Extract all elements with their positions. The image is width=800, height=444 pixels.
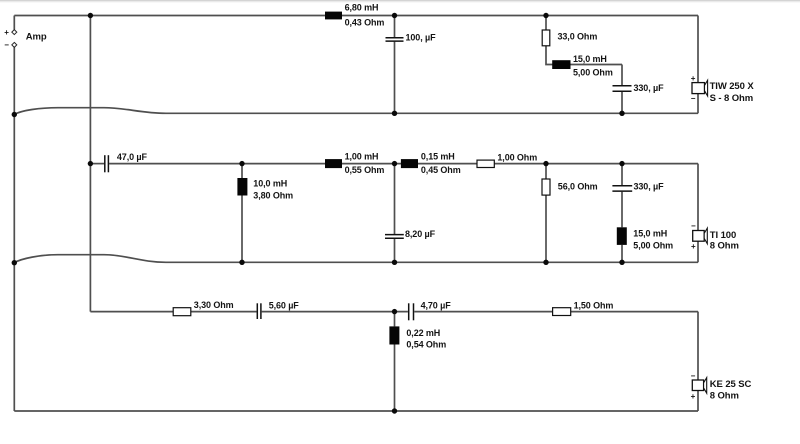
wire bottom rail (tweeter return) bbox=[14, 410, 698, 412]
svg-text:KE 25 SC: KE 25 SC bbox=[710, 379, 752, 390]
wire top return (curved) bbox=[14, 108, 698, 115]
resistor R3 56,0 Ohm bbox=[542, 179, 598, 195]
wire woofer top lead bbox=[697, 16, 699, 83]
svg-text:−: − bbox=[691, 222, 696, 231]
svg-text:−: − bbox=[4, 40, 9, 49]
wire main feed branch vertical x=90 bbox=[89, 16, 91, 312]
svg-text:33,0 Ohm: 33,0 Ohm bbox=[558, 32, 598, 42]
wire midrange top lead bbox=[697, 164, 699, 231]
node L5 bottom bbox=[239, 260, 244, 265]
speaker SP2 TI 100 (midrange) bbox=[691, 222, 739, 252]
resistor R5 1,50 Ohm bbox=[553, 300, 614, 315]
svg-text:15,0 mH: 15,0 mH bbox=[573, 54, 607, 64]
wire low rail left segment bbox=[90, 311, 256, 313]
capacitor C3 47,0 uF bbox=[105, 155, 109, 172]
svg-text:+: + bbox=[691, 74, 696, 83]
wire top rail (net: amp+ to woofer) bbox=[14, 15, 698, 17]
svg-text:−: − bbox=[691, 371, 696, 380]
svg-text:5,00 Ohm: 5,00 Ohm bbox=[573, 68, 613, 78]
node mid R3 tap bbox=[543, 161, 548, 166]
resistor R1 33,0 Ohm bbox=[542, 30, 597, 46]
node amp- top return bbox=[12, 112, 17, 117]
speaker SP1 TIW 250 X (woofer) bbox=[691, 74, 755, 104]
svg-text:3,30 Ohm: 3,30 Ohm bbox=[194, 300, 234, 310]
wire amp+ drop bbox=[13, 16, 15, 30]
wire L5 bottom lead bbox=[241, 196, 243, 263]
wire tweeter bottom lead bbox=[697, 391, 699, 412]
svg-text:Amp: Amp bbox=[26, 31, 47, 42]
resistor R2 1,00 Ohm bbox=[477, 153, 537, 168]
svg-text:0,55 Ohm: 0,55 Ohm bbox=[345, 165, 385, 175]
svg-text:330, µF: 330, µF bbox=[634, 83, 665, 93]
amp terminal - (diamond) bbox=[4, 40, 17, 49]
wire R3 top lead bbox=[545, 164, 547, 179]
wire woofer bottom lead bbox=[697, 94, 699, 114]
wire L4 to C2 elbow bbox=[621, 65, 623, 86]
node C2 bottom bbox=[619, 111, 624, 116]
node low C7/L7 tap bbox=[392, 309, 397, 314]
node L7 bottom bbox=[392, 408, 397, 413]
node R3 bottom bbox=[543, 260, 548, 265]
svg-text:−: − bbox=[691, 94, 696, 103]
resistor R4 3,30 Ohm bbox=[173, 300, 233, 316]
svg-text:+: + bbox=[691, 392, 696, 401]
wire midrange bottom lead bbox=[697, 241, 699, 262]
capacitor C7 4,70 uF bbox=[409, 303, 414, 320]
node C1 bottom bbox=[392, 111, 397, 116]
wire L7 top lead bbox=[394, 312, 396, 327]
wire C1 branch upper bbox=[394, 16, 396, 38]
node mid C4 tap bbox=[392, 161, 397, 166]
node mid L5 tap bbox=[239, 161, 244, 166]
svg-text:0,54 Ohm: 0,54 Ohm bbox=[406, 340, 446, 350]
svg-text:3,80 Ohm: 3,80 Ohm bbox=[253, 191, 293, 201]
wire L7 bottom lead bbox=[394, 345, 396, 412]
svg-text:0,22 mH: 0,22 mH bbox=[406, 328, 440, 338]
svg-text:S - 8 Ohm: S - 8 Ohm bbox=[710, 93, 753, 104]
capacitor C5 330 uF bbox=[612, 186, 632, 191]
svg-text:8,20 µF: 8,20 µF bbox=[405, 229, 436, 239]
svg-text:10,0 mH: 10,0 mH bbox=[253, 179, 287, 189]
capacitor C4 8,20 uF bbox=[385, 235, 404, 239]
wire C5 upper lead bbox=[621, 164, 623, 186]
wire C2 lower lead bbox=[621, 92, 623, 114]
svg-text:+: + bbox=[4, 28, 9, 37]
svg-text:0,43 Ohm: 0,43 Ohm bbox=[345, 18, 385, 28]
wire C5 to L6 bbox=[621, 192, 623, 228]
wire amp- vertical bus bbox=[13, 47, 15, 411]
node L6 bottom bbox=[619, 260, 624, 265]
wire mid rail left of C3 bbox=[90, 163, 104, 165]
wire R3 bottom lead bbox=[545, 195, 547, 262]
svg-text:TIW 250 X: TIW 250 X bbox=[710, 81, 755, 92]
svg-text:0,45 Ohm: 0,45 Ohm bbox=[421, 165, 461, 175]
inductor L3 0,15 mH bbox=[401, 152, 461, 176]
wire mid rail C3 to corner bbox=[109, 163, 698, 165]
svg-text:8 Ohm: 8 Ohm bbox=[710, 390, 739, 401]
wire low rail C6 to C7 bbox=[262, 311, 408, 313]
svg-text:56,0 Ohm: 56,0 Ohm bbox=[558, 181, 598, 191]
wire R1 top lead bbox=[545, 16, 547, 31]
capacitor C2 330 uF bbox=[613, 86, 632, 91]
inductor L7 0,22 mH bbox=[389, 326, 446, 349]
node mid feed x=90 bbox=[88, 161, 93, 166]
inductor L2 1,00 mH bbox=[325, 152, 384, 176]
speaker SP3 KE 25 SC (tweeter) bbox=[691, 371, 752, 401]
svg-text:330, µF: 330, µF bbox=[634, 182, 665, 192]
inductor L4 15,0 mH bbox=[552, 54, 613, 78]
node top R1 tap bbox=[543, 13, 548, 18]
svg-text:47,0 µF: 47,0 µF bbox=[117, 152, 148, 162]
svg-text:1,00 mH: 1,00 mH bbox=[345, 152, 379, 162]
svg-text:5,00 Ohm: 5,00 Ohm bbox=[633, 241, 673, 251]
wire L5 top lead bbox=[241, 164, 243, 178]
node top feed x=90 bbox=[88, 13, 93, 18]
capacitor C6 5,60 uF bbox=[257, 303, 261, 319]
wire tweeter top lead bbox=[697, 312, 699, 380]
svg-text:6,80 mH: 6,80 mH bbox=[345, 3, 379, 13]
wire mid return (curved) bbox=[14, 255, 698, 263]
wire C4 lower lead bbox=[394, 239, 396, 262]
wire C1 branch lower bbox=[394, 42, 396, 114]
inductor L5 10,0 mH bbox=[237, 178, 293, 201]
wire low rail C7 to corner bbox=[414, 311, 698, 313]
node C4 bottom bbox=[392, 260, 397, 265]
inductor L6 15,0 mH bbox=[617, 227, 673, 250]
svg-text:0,15 mH: 0,15 mH bbox=[421, 152, 455, 162]
capacitor C1 100 uF bbox=[386, 38, 404, 41]
inductor L1 6,80 mH bbox=[325, 3, 384, 28]
node mid C5 tap bbox=[619, 161, 624, 166]
svg-text:8 Ohm: 8 Ohm bbox=[710, 241, 739, 252]
node amp- mid return bbox=[12, 260, 17, 265]
svg-text:100, µF: 100, µF bbox=[406, 32, 437, 42]
svg-text:4,70 µF: 4,70 µF bbox=[421, 301, 452, 311]
svg-text:1,00 Ohm: 1,00 Ohm bbox=[497, 153, 537, 163]
svg-text:+: + bbox=[691, 242, 696, 251]
svg-text:1,50 Ohm: 1,50 Ohm bbox=[574, 300, 614, 310]
svg-text:TI 100: TI 100 bbox=[710, 230, 736, 241]
node top C1 tap bbox=[392, 13, 397, 18]
wire L6 bottom lead bbox=[621, 245, 623, 262]
wire C4 upper lead bbox=[394, 164, 396, 235]
svg-text:15,0 mH: 15,0 mH bbox=[633, 229, 667, 239]
svg-text:5,60 µF: 5,60 µF bbox=[269, 300, 300, 310]
amp terminal + (diamond) bbox=[4, 28, 17, 37]
wire R1 to L4 elbow bbox=[546, 46, 622, 65]
